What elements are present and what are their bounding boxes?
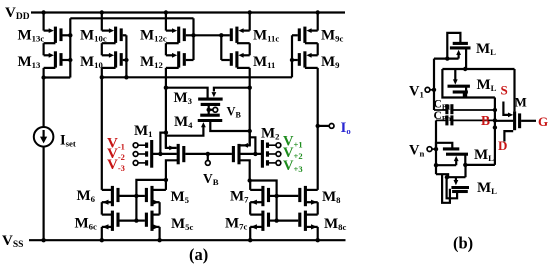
node M13c gate tap [68, 33, 72, 37]
node M13 gate tap [68, 58, 72, 62]
svg-text:ML: ML [477, 180, 497, 196]
node VSS junction x=43.6 [41, 238, 45, 242]
wire ML3 source wire [436, 164, 456, 166]
transistor M12c [177, 27, 180, 43]
wire M8c source to VSS [317, 227, 319, 240]
wire box top right (M3 source to tail2) [214, 88, 250, 92]
transistor M7 [261, 186, 264, 206]
wire M4 drain to tail2 [210, 122, 249, 131]
transistor ML3 gate hook [436, 143, 452, 149]
wire VB terminal stub (top) [209, 109, 213, 111]
wire M9c drain to M9 source [317, 43, 319, 55]
svg-text:Vn: Vn [409, 143, 424, 159]
current source Iset [34, 127, 54, 147]
node CB1 junction [493, 108, 497, 112]
transistor ML1 gate hook [447, 33, 460, 59]
node M7/M8 gate tap [274, 194, 278, 198]
svg-text:M9: M9 [321, 54, 340, 70]
wire M1 bulk lead [153, 153, 177, 155]
transistor M3 [198, 98, 223, 101]
wire M5/M6 gate bus [136, 180, 166, 221]
terminal VB bottom [205, 161, 210, 166]
transistor M7c [261, 211, 264, 231]
transistor M9 [303, 51, 306, 67]
svg-text:M1: M1 [134, 123, 153, 139]
node M7c/M8c gate tap [274, 218, 278, 222]
svg-text:M13c: M13c [18, 28, 45, 44]
node VDD junction x=249.7 [248, 10, 252, 14]
wire M2 bulk lead [240, 153, 261, 155]
svg-text:M2: M2 [261, 126, 280, 142]
capacitor CB1 [445, 104, 448, 114]
transistor ML3 [446, 153, 468, 156]
svg-text:M10: M10 [80, 54, 104, 70]
transistor ML1 (top) [450, 46, 471, 49]
wire tail1 to M1 source [166, 133, 177, 148]
wire gate bus M13 to M12 [70, 17, 193, 19]
capacitor plate bulk bar M2 [261, 140, 264, 168]
node VSS junction x=317.7 [316, 238, 320, 242]
terminal V-3 [133, 161, 138, 166]
transistor M bulk lead [495, 120, 513, 122]
transistor ML4 source lead [455, 177, 457, 181]
node M3/M4 gate junction [207, 108, 211, 112]
svg-text:M13: M13 [18, 54, 42, 70]
wire VB stub (bottom) [207, 154, 209, 161]
node VDD junction x=165.9 [164, 10, 168, 14]
wire L1 bus (M10 diode node to M9 gates) [102, 76, 292, 78]
svg-text:M3: M3 [174, 90, 193, 106]
wire gate link M12 to M11 [194, 34, 222, 36]
node tail1 lower junction [164, 130, 168, 134]
wire diode node to Iset [42, 78, 44, 128]
transistor M8c [304, 211, 307, 231]
node VDD junction x=317.7 [316, 10, 320, 14]
svg-text:M: M [515, 95, 527, 110]
wire M7/M8 gate bus [250, 181, 276, 221]
wire V1 column [433, 59, 435, 110]
transistor M11 [235, 51, 238, 67]
node tail1 upper junction [164, 86, 168, 90]
svg-text:M8: M8 [322, 189, 341, 205]
wire M7 source to M7c drain [249, 202, 251, 214]
node B lead junction [493, 125, 497, 129]
wire Iset to VSS [42, 146, 44, 240]
transistor M6c [111, 211, 114, 231]
node ML3 source junction [434, 163, 438, 167]
svg-text:Iset: Iset [60, 133, 76, 149]
wire M3/M4 gate tie [208, 104, 210, 115]
wire M4 source lead to tail1 [166, 126, 204, 136]
svg-text:G: G [538, 114, 548, 129]
transistor M10c [114, 27, 117, 43]
transistor M9c [303, 27, 306, 43]
terminal V-2 [133, 152, 138, 157]
svg-text:ML: ML [476, 41, 496, 57]
transistor ML4 drain hook [442, 174, 450, 203]
input capacitor plates M2 [266, 143, 269, 148]
svg-text:S: S [501, 83, 508, 98]
transistor ML3 source lead [455, 160, 457, 165]
node M10 gate to L1 bus junction [124, 75, 128, 79]
terminal V+1 [276, 143, 281, 148]
transistor M source stub [503, 102, 509, 115]
transistor M3 source arrow [212, 92, 217, 97]
transistor M13 [54, 51, 57, 67]
node VSS junction x=101.8 [100, 238, 104, 242]
power rail VSS [29, 239, 346, 241]
svg-text:M11c: M11c [253, 28, 279, 44]
wire Vn wire to ML4 [436, 174, 448, 177]
node M10 drain / L1 bus junction [100, 75, 104, 79]
node output tap [316, 124, 320, 128]
wire VDD to M13c source [42, 13, 44, 31]
wire tail2 to M2 source [240, 131, 249, 145]
wire M13 gate riser [69, 18, 71, 77]
capacitor CBn [445, 115, 448, 125]
transistor ML4 [451, 186, 469, 189]
transistor M2 [237, 144, 240, 164]
transistor M5 [150, 186, 153, 206]
svg-text:M6c: M6c [75, 216, 98, 232]
terminal Vn [427, 147, 432, 152]
wire VDD to M11c source [249, 13, 251, 31]
wire M1 bulk tie to tail1 [160, 133, 166, 154]
transistor ML1 source lead [458, 53, 460, 58]
svg-text:VB: VB [227, 105, 242, 120]
node M11c gate tap [219, 33, 223, 37]
node VDD junction x=101.8 [100, 10, 104, 14]
wire M7c source to VSS [249, 227, 251, 240]
wire M2 bulk tie to tail2 [250, 137, 256, 154]
svg-text:D: D [498, 138, 507, 153]
wire B bus vertical [494, 98, 496, 165]
node CBn junction [493, 118, 497, 122]
svg-text:ML: ML [477, 77, 497, 93]
transistor M drain stub [504, 131, 513, 141]
wire ML1 drain down [465, 49, 467, 69]
transistor M6 [111, 186, 114, 206]
wire M13c drain to M13 source [42, 43, 44, 55]
svg-text:M7: M7 [230, 189, 249, 205]
svg-text:M4: M4 [174, 114, 193, 130]
wire ML4 top wire [447, 176, 466, 178]
svg-text:M12: M12 [140, 54, 163, 70]
wire M6 source to M6c drain [101, 202, 103, 214]
wire M7 drain lead up to mirror node [249, 181, 251, 190]
wire M10 gate riser [125, 35, 127, 77]
transistor M12 [177, 51, 180, 67]
node M5c/M6c gate tap [134, 218, 138, 222]
wire M1 drain down to mirror node [166, 160, 178, 180]
node M2 bulk junction [253, 152, 257, 156]
wire VDD to M12c source [165, 13, 167, 31]
svg-text:VSS: VSS [2, 233, 23, 250]
wire M8 source to M8c drain [317, 202, 319, 214]
svg-text:M5: M5 [171, 189, 190, 205]
wire M2 drain down to mirror node [239, 160, 250, 180]
svg-text:M9c: M9c [321, 28, 344, 44]
terminal VB top [213, 107, 218, 112]
wire S-node to M source [513, 69, 515, 111]
wire S-node bus [442, 68, 514, 70]
transistor M5c [150, 211, 153, 231]
svg-text:M11: M11 [253, 54, 275, 70]
svg-text:M7c: M7c [225, 216, 248, 232]
transistor ML4 gate hook [447, 177, 458, 198]
wire M11 gate riser [220, 35, 222, 60]
node ML1 drain junction [463, 67, 467, 71]
wire M10c drain to M10 source [101, 43, 103, 55]
svg-text:Io: Io [341, 120, 352, 136]
node VSS junction x=159.6 [157, 238, 161, 242]
wire Vn column [435, 120, 437, 174]
transistor M11c [235, 27, 238, 43]
node M10 gate tap [124, 58, 128, 62]
transistor M13c [54, 27, 57, 43]
wire M9 drain down to output node [317, 68, 319, 190]
wire M10 drain down to M6 drain (folding node) [101, 68, 103, 190]
node M1 drain / mirror junction [164, 178, 168, 182]
svg-text:VB: VB [203, 171, 219, 187]
wire output to Io terminal [318, 125, 329, 127]
wire VDD to M10c source [101, 13, 103, 31]
transistor M10 [114, 51, 117, 67]
svg-text:M5c: M5c [171, 216, 194, 232]
transistor ML2 source lead [454, 69, 456, 82]
wire M12 gate riser [192, 18, 194, 60]
svg-text:V1: V1 [409, 84, 424, 100]
node ML1 g-s junction [445, 56, 449, 60]
wire M5 source to M5c drain [159, 202, 161, 214]
node M13 drain-gate diode junction [41, 75, 45, 79]
node M12c gate tap [191, 33, 195, 37]
wire M11 drain vertical (tail 2) [249, 68, 251, 145]
node ML3 drain junction [463, 163, 467, 167]
power rail VDD [31, 11, 345, 13]
transistor M4 [198, 119, 223, 122]
node VB gate line junction [206, 152, 210, 156]
node M1 bulk junction [158, 152, 162, 156]
svg-text:M6: M6 [77, 188, 96, 204]
capacitor plate bulk bar M1 [150, 140, 153, 168]
svg-text:VDD: VDD [5, 5, 30, 22]
svg-text:B: B [481, 113, 490, 128]
wire box top left (tail1 to M3 drain) [166, 88, 208, 98]
terminal Io [329, 124, 334, 129]
wire VDD to M9c source [317, 13, 319, 31]
svg-text:(a): (a) [189, 245, 208, 264]
transistor ML2 [448, 85, 470, 88]
transistor M1 gate lead [185, 153, 208, 155]
node ML4 top junction [445, 175, 449, 179]
transistor ML2 gate hook [442, 69, 464, 98]
node VSS junction x=250.2 [248, 238, 252, 242]
wire M12 drain vertical (tail 1) [165, 68, 167, 148]
node Vn junction [434, 147, 438, 151]
terminal V+3 [276, 161, 281, 166]
svg-text:ML: ML [474, 147, 494, 163]
wire M9 gate riser to L1 bus [291, 35, 293, 77]
wire M5 drain lead up to mirror node [165, 180, 167, 190]
terminal V-1 [133, 143, 138, 148]
wire M13 diode node to gate riser [44, 76, 71, 78]
svg-text:M8c: M8c [324, 216, 347, 232]
node tail2 lower junction [248, 129, 252, 133]
svg-text:M12c: M12c [140, 28, 167, 44]
node M5/M6 gate tap [134, 194, 138, 198]
wire M6c source to VSS [101, 227, 103, 240]
input capacitor plates M1 [145, 143, 148, 148]
wire M11c drain to M11 source [249, 43, 251, 55]
node M9 gate tap [290, 58, 294, 62]
wire M13 drain down to diode node [42, 68, 44, 78]
wire M5c source to VSS [159, 227, 161, 240]
transistor M8 [304, 186, 307, 206]
transistor M2 gate lead [208, 153, 232, 155]
transistor M4 source arrow [201, 122, 206, 127]
wire ML3 drain to B bus [464, 154, 466, 165]
svg-text:(b): (b) [453, 234, 473, 253]
node tail2 upper junction [248, 86, 252, 90]
transistor M (composite symbol) [513, 111, 516, 130]
transistor M1 [177, 144, 180, 164]
wire M12c drain to M12 source [165, 43, 167, 55]
transistor M gate lead [521, 120, 536, 122]
node M2 drain / mirror junction [248, 178, 252, 182]
terminal V1 [425, 87, 430, 92]
node VDD junction x=43.6 [41, 10, 45, 14]
wire ML1 gate-source node [434, 57, 459, 59]
wire ML2 drain to B bus [466, 87, 495, 97]
node V1 junction [432, 88, 436, 92]
terminal V+2 [276, 152, 281, 157]
